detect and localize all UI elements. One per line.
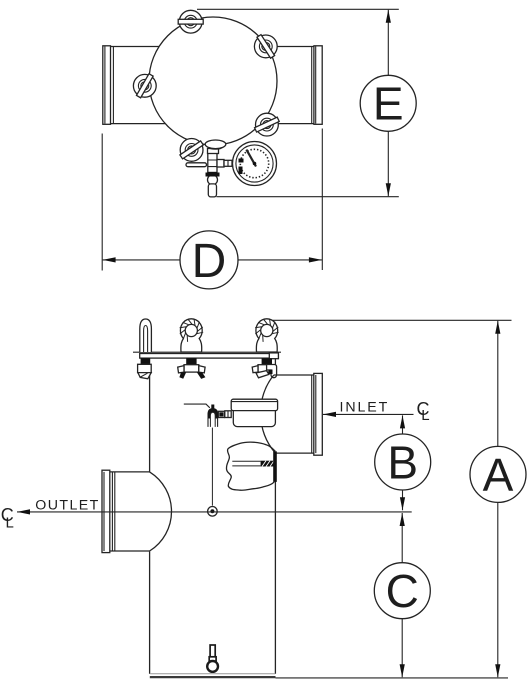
svg-text:INLET: INLET [340,400,390,416]
svg-text:OUTLET: OUTLET [35,497,99,513]
svg-text:D: D [192,235,227,288]
svg-text:B: B [387,436,418,488]
svg-text:A: A [483,449,514,501]
svg-text:L: L [6,515,14,532]
svg-text:C: C [386,565,419,617]
svg-text:L: L [421,407,429,424]
svg-text:E: E [373,78,404,130]
